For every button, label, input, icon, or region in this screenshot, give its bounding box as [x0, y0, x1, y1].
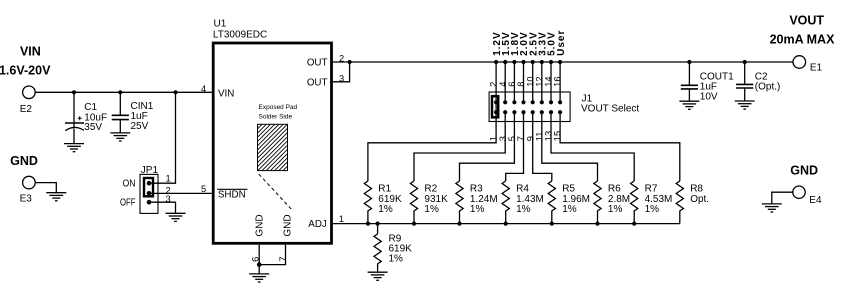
resistor R2	[410, 181, 448, 224]
node junction R3/ADJ	[457, 222, 461, 226]
ground JP1	[166, 213, 186, 221]
svg-text:OUT: OUT	[307, 58, 328, 69]
svg-text:Exposed Pad: Exposed Pad	[259, 104, 298, 111]
svg-text:GND: GND	[790, 164, 818, 178]
svg-text:E4: E4	[809, 195, 822, 206]
wire JP1 pin1 to VIN	[149, 92, 176, 183]
connector J1 contacts top row	[494, 100, 562, 104]
svg-text:User: User	[556, 30, 567, 56]
exposed pad dashed leader	[259, 174, 293, 211]
capacitor CIN1	[112, 92, 154, 133]
wire JP1 pin3 to ground	[149, 202, 176, 213]
wire J1 pin1 to R1	[368, 112, 496, 181]
resistor R5	[548, 181, 590, 224]
svg-text:VOUT: VOUT	[789, 13, 824, 27]
wire VIN	[35, 91, 212, 93]
node junction R7/ADJ	[632, 222, 636, 226]
resistor R8	[676, 181, 709, 224]
node junction R6/ADJ	[595, 222, 599, 226]
ground E3	[46, 193, 66, 201]
ground CIN1	[110, 133, 130, 141]
connector J1 odd pin numbers	[489, 131, 563, 141]
node junction COUT1	[687, 60, 691, 64]
resistor R6	[594, 181, 630, 224]
node junction GND pins	[257, 262, 262, 267]
ground E4	[762, 204, 782, 212]
resistor R9	[374, 224, 412, 272]
svg-text:1%: 1%	[608, 204, 623, 215]
wire J1 pin13 to R7	[551, 112, 634, 181]
svg-text:ADJ: ADJ	[308, 219, 327, 230]
pin 5 SHDN name with overline	[217, 189, 247, 200]
node junction CIN1/VIN	[118, 90, 122, 94]
terminal E3	[20, 176, 36, 204]
ground C1	[64, 144, 84, 152]
wire J1 pin7 to R4	[506, 112, 524, 181]
resistor R4	[502, 181, 544, 224]
svg-text:VIN: VIN	[20, 44, 41, 58]
ground C2	[735, 101, 755, 109]
terminal E4	[793, 186, 822, 206]
node junctions on VOUT wire	[494, 60, 562, 64]
svg-text:6: 6	[251, 257, 261, 262]
svg-text:1%: 1%	[562, 204, 577, 215]
svg-text:7: 7	[278, 256, 288, 261]
svg-text:SHDN: SHDN	[218, 189, 246, 200]
jumper JP1	[120, 165, 171, 213]
svg-text:LT3009EDC: LT3009EDC	[213, 30, 267, 41]
wire OUT pin2 to E1	[333, 61, 793, 63]
svg-text:Solder Side: Solder Side	[259, 113, 293, 120]
svg-text:OUT: OUT	[307, 77, 328, 88]
terminal E1	[793, 56, 823, 74]
svg-text:1%: 1%	[389, 254, 404, 265]
connector J1 body	[489, 92, 570, 122]
wires J1 even pins up to VOUT	[496, 62, 560, 102]
wire J1 pin3 to R2	[414, 112, 505, 181]
svg-text:(Opt.): (Opt.)	[755, 82, 781, 93]
node junction C2	[743, 60, 747, 64]
svg-text:16: 16	[553, 76, 563, 86]
node junction R5/ADJ	[550, 222, 554, 226]
resistor R7	[631, 181, 673, 224]
svg-text:E2: E2	[20, 104, 33, 115]
ground R9	[368, 272, 388, 280]
svg-text:VIN: VIN	[218, 88, 234, 99]
node junction OUT pins	[348, 60, 352, 64]
svg-text:E3: E3	[20, 193, 33, 204]
svg-text:1%: 1%	[516, 204, 531, 215]
svg-text:25V: 25V	[131, 121, 149, 132]
capacitor C1	[65, 92, 107, 143]
IC U1 body	[213, 43, 331, 243]
svg-text:U1: U1	[214, 19, 227, 30]
node junction R1/ADJ	[366, 222, 370, 226]
exposed pad hatch	[250, 78, 300, 216]
svg-text:20mA MAX: 20mA MAX	[770, 32, 835, 46]
connector J1 shunt on pins 1-2	[492, 96, 498, 117]
wire J1 pin15 to R8	[560, 112, 680, 181]
wire E3 to ground	[35, 183, 56, 193]
svg-text:ON: ON	[123, 179, 136, 190]
svg-text:GND: GND	[255, 214, 266, 236]
connector J1 label	[581, 93, 639, 114]
svg-text:1%: 1%	[645, 204, 660, 215]
wire J1 pin9 to R5	[533, 112, 552, 181]
exposed pad note	[259, 104, 298, 121]
wire E4 to ground	[772, 192, 793, 204]
node junction R2/ADJ	[412, 222, 416, 226]
wire J1 pin1-pin2 shunt link	[495, 102, 497, 112]
connector J1 contacts bottom row	[494, 110, 562, 114]
svg-text:15: 15	[553, 131, 563, 141]
resistor R1	[364, 181, 402, 224]
terminal E2	[20, 86, 35, 115]
svg-text:VOUT Select: VOUT Select	[581, 103, 639, 114]
pin 6 GND	[251, 214, 266, 274]
connector J1 even pin numbers	[489, 76, 563, 86]
svg-text:GND: GND	[282, 214, 293, 236]
wire J1 pin11 to R6	[542, 112, 598, 181]
capacitor C2	[736, 62, 780, 101]
wire JP1 pin2 to SHDN pin5	[149, 192, 212, 194]
node junction R9/ADJ	[376, 222, 380, 226]
svg-text:1: 1	[166, 173, 171, 183]
node junction R4/ADJ	[504, 222, 508, 226]
svg-text:1%: 1%	[424, 204, 439, 215]
wire OUT pin3 join	[333, 62, 350, 82]
ground U1	[249, 274, 269, 282]
svg-text:1.6V-20V: 1.6V-20V	[0, 64, 51, 78]
svg-text:Opt.: Opt.	[690, 194, 709, 205]
svg-text:E1: E1	[810, 63, 823, 74]
pin 7 GND	[259, 214, 293, 264]
svg-text:5: 5	[201, 184, 206, 194]
ground COUT1	[679, 101, 699, 109]
svg-text:1%: 1%	[378, 204, 393, 215]
svg-text:1%: 1%	[470, 204, 485, 215]
svg-text:1: 1	[339, 214, 344, 224]
svg-text:OFF: OFF	[120, 198, 135, 209]
capacitor COUT1	[681, 62, 734, 102]
svg-text:GND: GND	[10, 154, 38, 168]
wire J1 pin5 to R3	[460, 112, 515, 181]
node junction JP1/VIN	[173, 90, 177, 94]
svg-text:35V: 35V	[84, 122, 102, 133]
resistor R3	[456, 181, 498, 224]
node junction C1/VIN	[72, 90, 76, 94]
svg-text:10V: 10V	[700, 91, 718, 102]
svg-text:4: 4	[201, 84, 206, 94]
connector J1 voltage labels	[492, 30, 567, 56]
wire ADJ to resistors	[333, 223, 680, 225]
